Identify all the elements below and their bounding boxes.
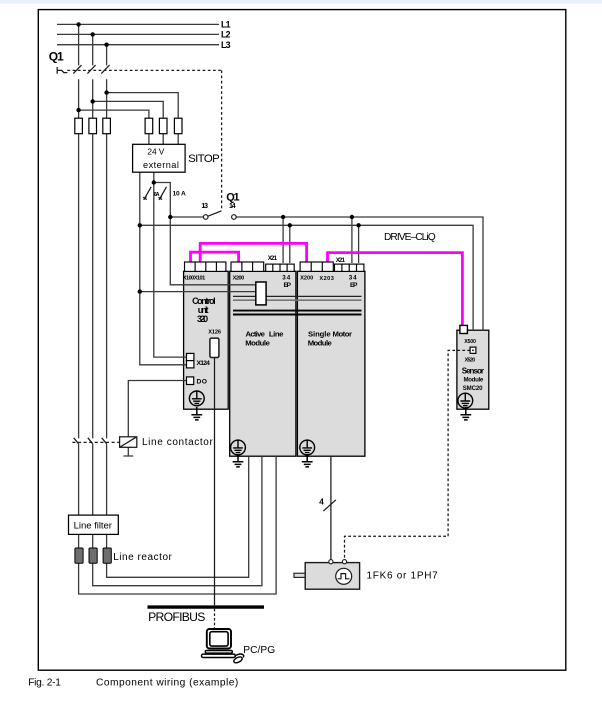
svg-text:3 4: 3 4: [349, 274, 357, 281]
ground SMC20: [458, 393, 473, 408]
PC/PG computer icon: [202, 629, 244, 664]
svg-text:3 4: 3 4: [282, 274, 290, 281]
control unit CU320 box: [184, 271, 229, 409]
active line module box: [230, 271, 296, 456]
ALM port group X21: [266, 264, 295, 271]
line reactor block1: [75, 548, 83, 563]
svg-text:13: 13: [201, 203, 208, 210]
svg-text:X21: X21: [268, 255, 278, 262]
wire2 EP 0V feed lower: [140, 225, 473, 331]
svg-text:4: 4: [319, 497, 324, 506]
svg-text:Module: Module: [464, 377, 484, 384]
svg-text:X124: X124: [197, 360, 211, 367]
svg-text:SMC20: SMC20: [463, 385, 483, 392]
wire branch L2 to fuse column: [93, 101, 164, 144]
Q1 linkage dashed: [67, 69, 221, 71]
svg-text:DO: DO: [197, 378, 207, 385]
encoder cable dashed: [345, 350, 471, 559]
svg-text:Q1: Q1: [49, 50, 64, 64]
svg-text:Module: Module: [245, 338, 270, 347]
wire EP drop ALM 4: [289, 225, 291, 263]
fuse F3: [103, 118, 111, 134]
wire phase1 vertical: [79, 24, 277, 594]
line reactor block2: [89, 548, 97, 563]
aux contact blade 13-14: [208, 211, 222, 216]
svg-text:320: 320: [197, 314, 208, 324]
fuse F6: [174, 118, 182, 134]
wire EP drop SMM 4: [358, 225, 360, 263]
Q1 main switch blade pole3: [101, 65, 109, 74]
svg-text:6A: 6A: [154, 192, 160, 198]
svg-text:PROFIBUS: PROFIBUS: [148, 610, 205, 624]
contactor blade pole2: [88, 438, 93, 444]
wire EP drop SMM 3: [351, 217, 353, 263]
connector DO terminal: [187, 377, 194, 385]
Q1 actuator tick: [57, 67, 67, 74]
wire branch L1 to fuse column: [79, 110, 149, 144]
aux contact terminal 14: [232, 215, 237, 220]
svg-text:X126: X126: [208, 330, 221, 336]
wire motor feed from SMM: [330, 456, 332, 559]
svg-text:10 A: 10 A: [173, 191, 187, 198]
svg-text:external: external: [143, 160, 179, 170]
svg-text:Fig. 2-1: Fig. 2-1: [28, 678, 61, 689]
Q1 main switch blade pole2: [87, 65, 95, 74]
fuse F4: [145, 118, 153, 134]
svg-text:X21: X21: [336, 257, 346, 264]
svg-text:EP: EP: [350, 282, 358, 289]
svg-text:X500: X500: [464, 339, 476, 345]
node X24 branch: [138, 289, 142, 293]
CU port group X100/X101: [185, 262, 226, 271]
24V SITOP supply box: [133, 144, 186, 172]
svg-text:X200: X200: [233, 276, 245, 282]
ground ALM: [231, 440, 246, 455]
svg-text:X203: X203: [319, 276, 334, 282]
wire X24 lower feed: [140, 291, 256, 293]
fuse F1: [75, 118, 83, 134]
svg-text:Module: Module: [308, 338, 333, 347]
svg-text:X100X101: X100X101: [183, 276, 205, 282]
svg-text:Line filter: Line filter: [74, 521, 113, 532]
node B branch: [152, 180, 156, 184]
SMM port group X21: [335, 264, 364, 271]
svg-text:Single: Single: [308, 329, 331, 338]
breaker blade A: [143, 187, 151, 200]
svg-text:Active: Active: [246, 329, 266, 338]
svg-text:SITOP: SITOP: [188, 153, 220, 165]
Q1 main switch blade pole1: [73, 65, 81, 74]
phase rail L2: [57, 33, 219, 35]
svg-text:Line: Line: [269, 329, 284, 338]
SMM port group X200/X203: [300, 262, 333, 271]
wire1 EP 24V feed upper: [170, 217, 483, 331]
node L3 tap: [104, 43, 108, 47]
connector X24 on ALM: [256, 282, 266, 305]
connector X520: [470, 347, 476, 353]
motor cable slash: [323, 500, 336, 511]
sensor module SMC20 box: [457, 330, 489, 409]
node SMM EP4: [356, 223, 360, 227]
svg-text:Sensor: Sensor: [462, 367, 484, 376]
wire 24V supply B: [154, 172, 187, 357]
ground CU: [189, 391, 204, 406]
line filter box: [69, 515, 119, 534]
ALM port group X200: [231, 262, 264, 271]
aux contact terminal 13: [203, 215, 208, 220]
node ALM EP3: [281, 215, 285, 219]
wire branch L3 to fuse column: [107, 93, 179, 145]
wire DO to contactor coil: [128, 381, 186, 437]
wire branch B to aux contact and X24: [154, 183, 256, 285]
svg-text:L2: L2: [221, 30, 231, 40]
wire 24V supply A: [140, 172, 187, 365]
phase rail L3: [57, 44, 219, 46]
svg-text:Q1: Q1: [226, 192, 239, 204]
wire PROFIBUS to PC dashed: [214, 609, 216, 629]
motor 1FK6/1PH7: [294, 560, 360, 590]
svg-text:L3: L3: [221, 40, 231, 50]
node SMM EP3: [350, 215, 354, 219]
wire X126 to PROFIBUS: [214, 351, 216, 605]
phase rail L1: [57, 23, 219, 25]
connector X126: [210, 338, 219, 357]
DC link busbar thick pair: [233, 311, 362, 315]
DRIVE-CLiQ cable CU X101 to SMM X200: [200, 243, 306, 263]
connector X500: [460, 325, 468, 333]
svg-text:Component wiring (example): Component wiring (example): [96, 678, 238, 689]
svg-text:Motor: Motor: [333, 329, 353, 338]
contactor blade pole3: [102, 438, 107, 444]
svg-text:X200: X200: [300, 276, 313, 282]
contactor blade pole1: [74, 438, 79, 444]
PROFIBUS bar: [148, 605, 265, 608]
wire EP drop ALM 3: [282, 217, 284, 263]
svg-text:X520: X520: [465, 357, 476, 363]
breaker blade B: [159, 187, 167, 200]
node L2 tap: [91, 32, 95, 36]
node wire1 left: [168, 215, 172, 219]
top page strip: [0, 0, 602, 4]
svg-text:24 V: 24 V: [147, 146, 164, 156]
svg-text:14: 14: [229, 203, 236, 210]
wire phase3 vertical: [107, 45, 249, 578]
Q1 linkage dashed vertical: [221, 70, 223, 209]
DRIVE-CLiQ cable CU X100 to ALM X200: [191, 252, 239, 263]
node ALM EP4: [288, 223, 292, 227]
svg-text:L1: L1: [221, 20, 231, 30]
DRIVE-CLiQ cable SMM X203 to SMC20 X500: [328, 253, 463, 327]
fuse F2: [89, 118, 97, 134]
svg-text:PC/PG: PC/PG: [243, 645, 275, 656]
connector X124 terminals: [187, 353, 194, 360]
node branch2: [91, 99, 95, 103]
line contactor linkage dashed: [72, 441, 119, 443]
line reactor block3: [103, 548, 111, 563]
ground SMM: [300, 440, 315, 455]
line contactor coil: [120, 437, 137, 448]
svg-text:Line reactor: Line reactor: [113, 552, 172, 563]
svg-text:1FK6 or 1PH7: 1FK6 or 1PH7: [367, 570, 439, 581]
node branch3: [104, 90, 108, 94]
svg-text:Line contactor: Line contactor: [142, 437, 213, 448]
DC link busbar thin pair: [233, 295, 362, 297]
svg-text:EP: EP: [284, 282, 292, 289]
node branch1: [76, 108, 80, 112]
node wire2 left: [138, 223, 142, 227]
wire coil bottom stub: [123, 447, 133, 456]
fuse F5: [159, 118, 167, 134]
wire phase2 vertical: [93, 34, 262, 585]
single motor module box: [297, 271, 365, 456]
node L1 tap: [76, 22, 80, 26]
svg-text:DRIVE–CLiQ: DRIVE–CLiQ: [384, 232, 436, 243]
